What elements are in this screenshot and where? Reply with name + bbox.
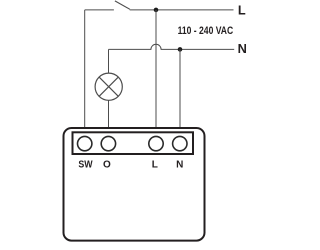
svg-text:L: L xyxy=(152,160,158,171)
svg-text:110 - 240 VAC: 110 - 240 VAC xyxy=(178,25,234,37)
wire: N line with hop over L drop xyxy=(109,44,235,49)
wire: vertical N drop to N terminal xyxy=(179,49,181,127)
terminal L xyxy=(149,136,163,150)
wire: vertical from switch to SW terminal xyxy=(84,10,86,128)
terminal N xyxy=(173,136,187,150)
switch S1 lever xyxy=(115,1,130,9)
lamp E1 xyxy=(95,73,122,100)
svg-text:SW: SW xyxy=(78,160,93,171)
node: N junction dot xyxy=(178,47,183,52)
relay module U1 outline xyxy=(64,128,205,241)
svg-text:N: N xyxy=(238,41,247,56)
wire: vertical L drop from junction to L terminal xyxy=(155,10,157,128)
terminal O xyxy=(101,136,115,150)
wire: lamp top lead xyxy=(108,49,110,73)
wire: lamp bottom lead to O terminal xyxy=(108,100,110,127)
node: L junction dot xyxy=(154,8,159,13)
wire: L line left segment (switch feed) xyxy=(85,9,114,11)
wire: L line right segment to label xyxy=(130,9,234,11)
terminal SW xyxy=(78,136,92,150)
svg-text:L: L xyxy=(238,2,246,17)
svg-text:N: N xyxy=(176,160,183,171)
terminal block xyxy=(73,132,194,154)
svg-text:O: O xyxy=(103,160,111,171)
